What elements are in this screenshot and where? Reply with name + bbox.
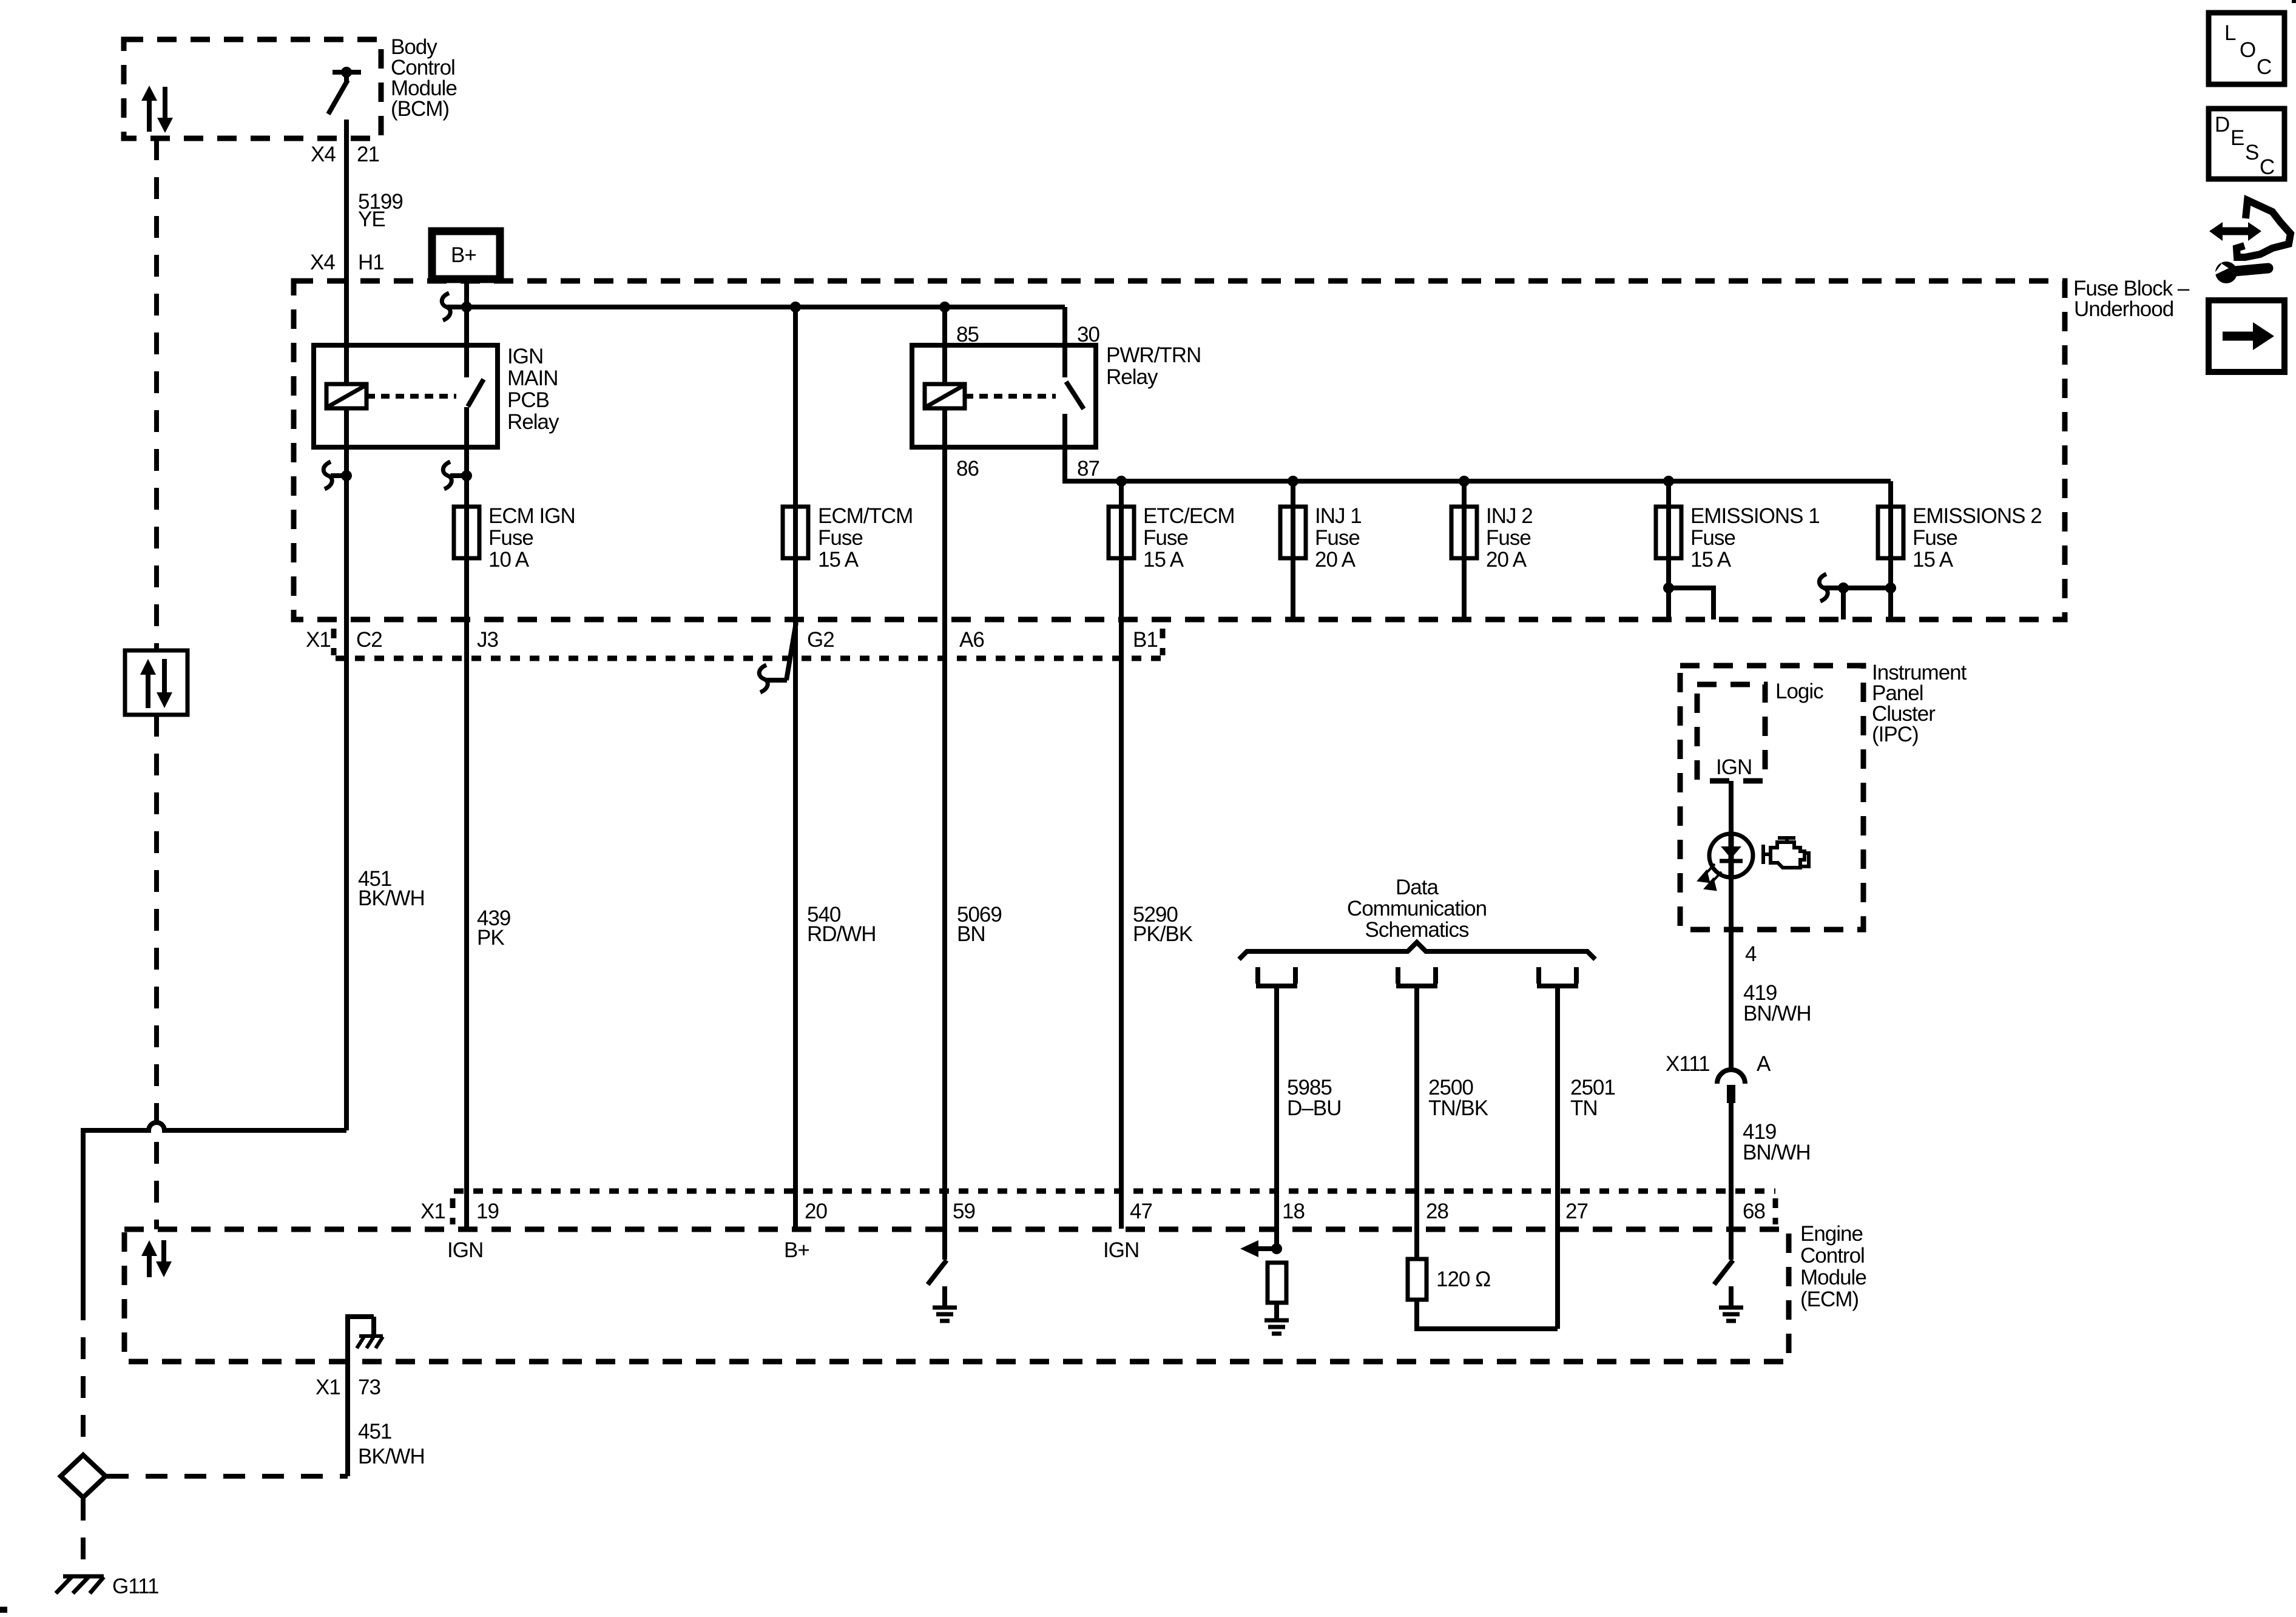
svg-text:C: C (2260, 155, 2274, 179)
svg-text:20 A: 20 A (1315, 548, 1356, 572)
svg-text:Data: Data (1396, 876, 1439, 899)
svg-text:IGN: IGN (447, 1238, 483, 1262)
svg-text:G2: G2 (807, 628, 834, 652)
svg-text:Relay: Relay (1106, 365, 1158, 389)
svg-text:Fuse: Fuse (1486, 526, 1531, 550)
svg-text:Fuse: Fuse (1690, 526, 1735, 550)
svg-text:59: 59 (953, 1200, 975, 1223)
svg-text:(IPC): (IPC) (1872, 723, 1919, 746)
svg-text:L: L (2224, 21, 2236, 45)
svg-text:18: 18 (1282, 1200, 1305, 1223)
svg-text:TN: TN (1570, 1096, 1598, 1120)
svg-text:Fuse: Fuse (1913, 526, 1957, 550)
svg-text:Module: Module (1800, 1266, 1866, 1289)
svg-text:ECM/TCM: ECM/TCM (818, 504, 913, 528)
svg-text:X4: X4 (311, 143, 336, 166)
svg-text:G111: G111 (112, 1575, 158, 1598)
svg-text:(ECM): (ECM) (1800, 1288, 1859, 1311)
svg-text:Fuse: Fuse (1315, 526, 1360, 550)
svg-text:Engine: Engine (1800, 1222, 1863, 1246)
svg-text:X111: X111 (1666, 1052, 1710, 1076)
svg-text:D–BU: D–BU (1287, 1096, 1341, 1120)
svg-text:Relay: Relay (507, 410, 559, 434)
svg-text:15 A: 15 A (1143, 548, 1184, 572)
svg-text:86: 86 (956, 457, 979, 481)
svg-text:Communication: Communication (1347, 897, 1487, 920)
svg-text:85: 85 (956, 323, 979, 346)
svg-text:IGN: IGN (1103, 1238, 1139, 1262)
svg-text:ETC/ECM: ETC/ECM (1143, 504, 1235, 528)
svg-text:Fuse: Fuse (488, 526, 533, 550)
svg-text:21: 21 (357, 143, 379, 166)
svg-text:J3: J3 (477, 628, 498, 652)
svg-text:D: D (2215, 113, 2229, 137)
svg-text:IGN: IGN (507, 345, 543, 368)
svg-text:28: 28 (1426, 1200, 1448, 1223)
svg-text:Fuse: Fuse (818, 526, 863, 550)
svg-text:B+: B+ (784, 1238, 809, 1262)
svg-text:BK/WH: BK/WH (358, 1445, 425, 1468)
svg-text:68: 68 (1743, 1200, 1765, 1223)
svg-text:20: 20 (805, 1200, 827, 1223)
svg-text:Underhood: Underhood (2074, 297, 2173, 321)
svg-text:INJ 1: INJ 1 (1315, 504, 1362, 528)
svg-text:MAIN: MAIN (507, 366, 558, 390)
svg-text:E: E (2230, 126, 2244, 150)
svg-text:Logic: Logic (1775, 680, 1823, 703)
svg-text:BN/WH: BN/WH (1743, 1141, 1811, 1164)
svg-text:Fuse: Fuse (1143, 526, 1188, 550)
svg-text:10 A: 10 A (488, 548, 530, 572)
svg-text:B1: B1 (1133, 628, 1158, 652)
svg-text:451: 451 (358, 1420, 391, 1443)
svg-text:EMISSIONS 2: EMISSIONS 2 (1913, 504, 2042, 528)
svg-text:BN: BN (957, 922, 985, 946)
svg-text:73: 73 (358, 1376, 380, 1399)
svg-text:C2: C2 (356, 628, 382, 652)
svg-text:(BCM): (BCM) (391, 97, 449, 121)
svg-text:TN/BK: TN/BK (1428, 1096, 1488, 1120)
svg-text:87: 87 (1077, 457, 1099, 481)
svg-text:C: C (2257, 55, 2271, 79)
svg-text:47: 47 (1130, 1200, 1152, 1223)
svg-text:Control: Control (1800, 1244, 1865, 1268)
svg-text:30: 30 (1077, 323, 1099, 346)
svg-text:19: 19 (476, 1200, 499, 1223)
svg-text:X1: X1 (316, 1376, 340, 1399)
svg-text:27: 27 (1565, 1200, 1588, 1223)
svg-text:ECM IGN: ECM IGN (488, 504, 575, 528)
svg-text:Schematics: Schematics (1365, 918, 1469, 942)
svg-text:RD/WH: RD/WH (807, 922, 876, 946)
svg-text:4: 4 (1745, 942, 1757, 966)
svg-text:IGN: IGN (1716, 755, 1752, 779)
svg-text:15 A: 15 A (1690, 548, 1732, 572)
svg-text:YE: YE (358, 208, 385, 231)
svg-text:S: S (2245, 141, 2258, 164)
svg-text:H1: H1 (358, 251, 384, 274)
svg-text:PCB: PCB (507, 388, 549, 412)
svg-text:BN/WH: BN/WH (1743, 1002, 1811, 1025)
svg-text:X4: X4 (310, 251, 335, 274)
svg-text:BK/WH: BK/WH (358, 886, 425, 910)
svg-text:15 A: 15 A (818, 548, 859, 572)
svg-text:X1: X1 (420, 1200, 445, 1223)
svg-text:PK/BK: PK/BK (1133, 922, 1193, 946)
svg-text:PK: PK (477, 926, 504, 950)
svg-text:O: O (2240, 38, 2255, 62)
svg-text:INJ 2: INJ 2 (1486, 504, 1533, 528)
svg-text:PWR/TRN: PWR/TRN (1106, 343, 1201, 367)
svg-text:B+: B+ (451, 243, 476, 267)
svg-text:120 Ω: 120 Ω (1436, 1268, 1490, 1291)
svg-text:A: A (1757, 1052, 1771, 1076)
svg-text:15 A: 15 A (1913, 548, 1954, 572)
svg-text:X1: X1 (306, 628, 331, 652)
svg-text:20 A: 20 A (1486, 548, 1527, 572)
svg-text:EMISSIONS 1: EMISSIONS 1 (1690, 504, 1820, 528)
svg-text:A6: A6 (959, 628, 984, 652)
